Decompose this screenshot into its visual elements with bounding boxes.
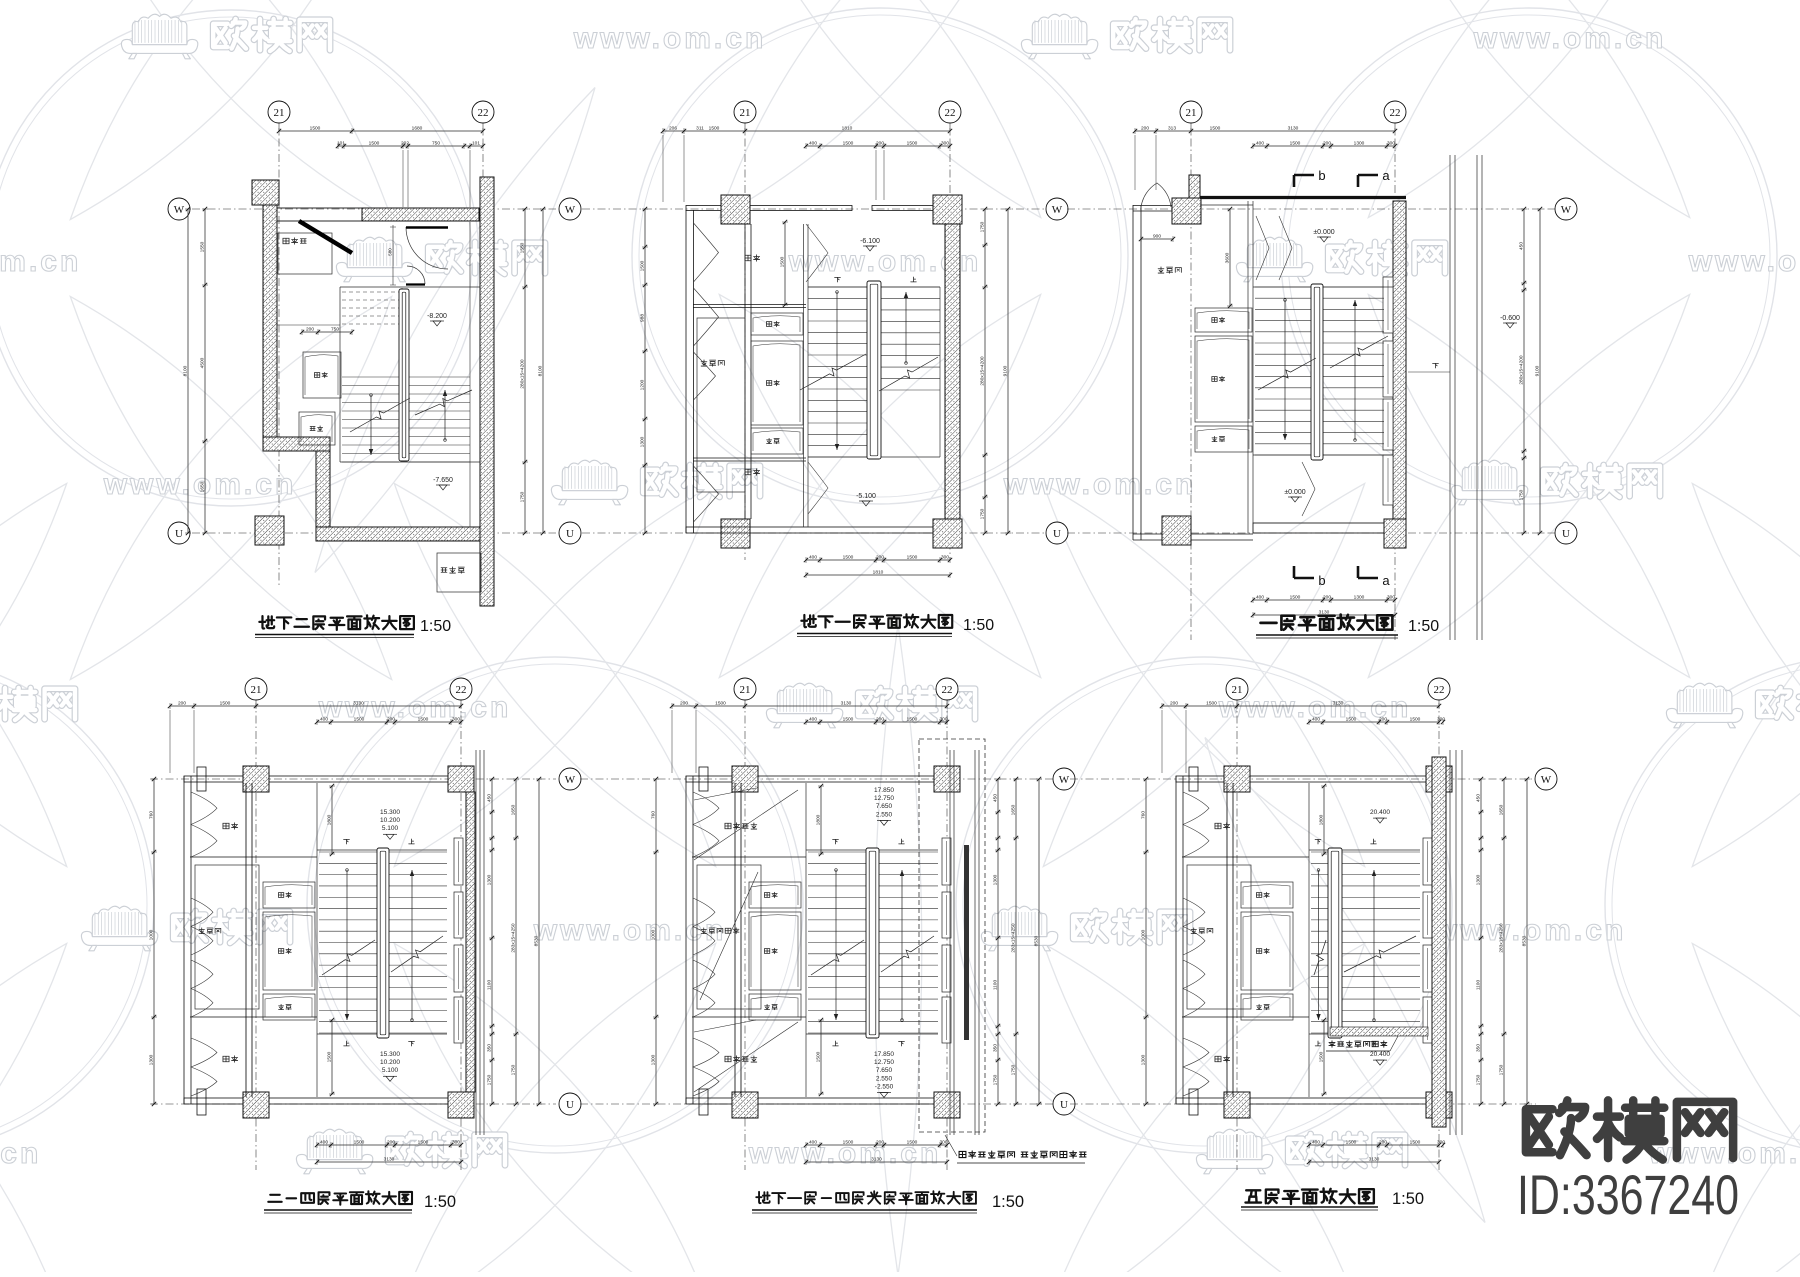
svg-text:760: 760 xyxy=(1141,811,1147,819)
svg-text:8100: 8100 xyxy=(183,365,189,376)
svg-text:1500: 1500 xyxy=(1410,1140,1421,1146)
svg-text:1300: 1300 xyxy=(1354,141,1365,147)
plan2 grid bubble 22 xyxy=(939,101,961,123)
plan1/plan2 shared W bubble xyxy=(559,198,581,220)
svg-text:3600: 3600 xyxy=(1225,252,1231,263)
svg-text:1200: 1200 xyxy=(640,379,646,390)
plan6 gridline U xyxy=(1070,1103,1536,1105)
plan3 right dimensions xyxy=(1519,207,1544,535)
svg-text:12.750: 12.750 xyxy=(874,1059,894,1066)
plan2 interior dim xyxy=(780,220,789,307)
plan5 up down labels xyxy=(833,839,905,1046)
svg-text:200: 200 xyxy=(387,1140,395,1146)
plan5 walls xyxy=(686,766,960,1118)
svg-text:300: 300 xyxy=(941,555,949,561)
plan5 bottom dims xyxy=(804,1140,949,1166)
svg-text:-5.100: -5.100 xyxy=(856,493,876,500)
svg-text:1500: 1500 xyxy=(354,717,365,723)
plan3 section marker b top xyxy=(1294,168,1326,187)
plan2 room vestibule label bottom xyxy=(745,469,760,475)
plan1 break lines xyxy=(350,390,472,432)
svg-text:400: 400 xyxy=(1256,141,1264,147)
plan3 bottom dims xyxy=(1251,595,1397,619)
svg-text:www.om.cn: www.om.cn xyxy=(1473,22,1667,55)
plan4 W bubble right xyxy=(559,768,581,790)
plan6 power room xyxy=(1187,865,1251,1009)
svg-text:17.850: 17.850 xyxy=(874,1051,894,1058)
plan3 grid bubble 22 xyxy=(1384,101,1406,123)
plan3 section marker b bottom xyxy=(1294,566,1326,588)
plan2 door zigzags xyxy=(694,223,829,522)
plan1 interior small dims xyxy=(277,325,354,335)
svg-text:5.100: 5.100 xyxy=(382,825,399,832)
svg-text:1500: 1500 xyxy=(418,717,429,723)
svg-text:1680: 1680 xyxy=(412,126,423,132)
plan5 air shafts xyxy=(749,882,801,1020)
svg-text:a: a xyxy=(1382,573,1390,588)
plan5 stair arrows xyxy=(834,869,904,1022)
plan1 stair arrows xyxy=(369,390,447,455)
plan1 right dimensions xyxy=(520,207,547,535)
plan6 stair rail xyxy=(1328,848,1342,1038)
svg-text:760: 760 xyxy=(651,811,657,819)
plan1 gridline U xyxy=(192,532,556,534)
svg-text:1300: 1300 xyxy=(993,874,999,885)
plan6 gridline W xyxy=(1070,778,1536,780)
plan6 aerated concrete label xyxy=(1326,1036,1398,1051)
svg-text:W: W xyxy=(1059,774,1070,786)
svg-text:200: 200 xyxy=(876,717,884,723)
svg-text:10.200: 10.200 xyxy=(380,1059,400,1066)
plan1/plan2 shared U bubble xyxy=(559,522,581,544)
svg-text:1650: 1650 xyxy=(511,804,517,815)
svg-text:283x15=4250: 283x15=4250 xyxy=(1011,923,1017,953)
plan4 stair arrows xyxy=(345,869,414,1022)
plan4 right wall slots xyxy=(454,838,463,1043)
plan6 grid bubble 22 xyxy=(1428,678,1450,700)
svg-text:2.550: 2.550 xyxy=(876,811,893,818)
svg-text:300: 300 xyxy=(1387,595,1395,601)
svg-text:1500: 1500 xyxy=(843,555,854,561)
plan1 small door arc xyxy=(406,266,425,285)
plan5 stair shaft xyxy=(806,783,938,1097)
svg-text:3130: 3130 xyxy=(384,1157,395,1163)
svg-text:400: 400 xyxy=(320,717,328,723)
svg-text:7.650: 7.650 xyxy=(876,803,893,810)
svg-text:15.300: 15.300 xyxy=(380,809,400,816)
plan4 vestibule labels xyxy=(223,823,238,1062)
svg-text:1650: 1650 xyxy=(200,481,206,492)
plan4 grid lines xyxy=(256,700,461,1170)
svg-text:350: 350 xyxy=(1476,1044,1482,1052)
plan1 door arc xyxy=(406,227,448,269)
plan4 air shafts xyxy=(263,882,315,1020)
svg-text:1500: 1500 xyxy=(354,1140,365,1146)
plan3 down label right xyxy=(1408,363,1450,372)
plan1 wall face line xyxy=(469,222,471,527)
svg-text:1500: 1500 xyxy=(1290,595,1301,601)
svg-text:900: 900 xyxy=(1153,234,1161,240)
svg-text:1810: 1810 xyxy=(873,570,884,576)
svg-text:400: 400 xyxy=(809,555,817,561)
plan2 top dim row1 xyxy=(661,126,952,203)
svg-text:U: U xyxy=(1060,1099,1068,1111)
svg-text:1650: 1650 xyxy=(1011,804,1017,815)
svg-text:1750: 1750 xyxy=(1011,1064,1017,1075)
svg-text:1100: 1100 xyxy=(1476,980,1482,991)
plan4 grid bubble 21 xyxy=(245,678,267,700)
svg-text:1300: 1300 xyxy=(651,1054,657,1065)
svg-text:b: b xyxy=(1318,168,1325,183)
plan6 wall end flanges xyxy=(1189,767,1198,1115)
svg-text:1500: 1500 xyxy=(907,141,918,147)
svg-text:21: 21 xyxy=(1186,107,1197,119)
svg-text:400: 400 xyxy=(809,1140,817,1146)
svg-text:21: 21 xyxy=(740,684,751,696)
plan3 U bubble right xyxy=(1555,522,1577,544)
svg-text:200: 200 xyxy=(1170,701,1178,707)
svg-text:1:50: 1:50 xyxy=(1392,1190,1424,1208)
plan4 top dim row2 xyxy=(315,717,463,726)
svg-text:3130: 3130 xyxy=(1333,701,1344,707)
svg-text:1300: 1300 xyxy=(1354,595,1365,601)
plan4 walls xyxy=(184,766,474,1118)
plan1 level -8.200 xyxy=(427,313,447,326)
svg-text:1750: 1750 xyxy=(993,1074,999,1085)
plan2 stair arrows xyxy=(835,291,908,450)
plan3 break lines xyxy=(1258,336,1388,390)
svg-text:1500: 1500 xyxy=(843,717,854,723)
plan3 top dim row1 xyxy=(1133,126,1397,191)
plan2 up/down labels xyxy=(835,277,917,282)
svg-text:10.200: 10.200 xyxy=(380,817,400,824)
svg-text:1500: 1500 xyxy=(1346,717,1357,723)
svg-text:2.550: 2.550 xyxy=(876,1075,893,1082)
svg-text:1:50: 1:50 xyxy=(424,1193,456,1211)
plan1 air shaft boxes xyxy=(299,352,341,445)
plan3 section marker a top xyxy=(1358,168,1390,187)
svg-text:400: 400 xyxy=(320,1140,328,1146)
svg-text:5.100: 5.100 xyxy=(382,1067,399,1074)
plan6 grid lines xyxy=(1237,700,1439,1170)
svg-text:www.om.cn: www.om.cn xyxy=(573,22,767,55)
plan6 treads left flight xyxy=(1311,852,1330,1033)
svg-text:300: 300 xyxy=(1437,1140,1445,1146)
plan6 bottom dims xyxy=(1307,1140,1446,1166)
svg-text:1:50: 1:50 xyxy=(963,617,994,634)
svg-text:3130: 3130 xyxy=(841,701,852,707)
plan6 left dims xyxy=(1141,777,1150,1106)
svg-text:450: 450 xyxy=(1519,242,1525,250)
svg-text:-2.550: -2.550 xyxy=(875,1083,894,1090)
svg-text:206: 206 xyxy=(669,126,677,132)
plan4 partition wall xyxy=(190,783,317,1097)
svg-text:1500: 1500 xyxy=(907,555,918,561)
plan4 left dims xyxy=(149,777,158,1106)
svg-text:21: 21 xyxy=(251,684,262,696)
plan4 interior room dims xyxy=(327,784,336,1096)
plan5 top dim row1 xyxy=(670,701,949,774)
plan5 vestibule labels xyxy=(725,823,757,1062)
plan2 U bubble right xyxy=(1046,522,1068,544)
plan4 top dim row1 xyxy=(168,701,463,774)
svg-text:1500: 1500 xyxy=(1346,1140,1357,1146)
svg-text:www.om.cn: www.om.cn xyxy=(0,245,81,278)
plan6 top dim row2 xyxy=(1307,717,1446,726)
plan2 grid bubble 21 xyxy=(734,101,756,123)
plan6 treads right flight xyxy=(1340,852,1420,1033)
plan2 treads left flight xyxy=(808,287,867,457)
plan5 grid lines xyxy=(745,700,947,1170)
svg-text:1500: 1500 xyxy=(418,1140,429,1146)
plan3 right corridor lines xyxy=(1450,155,1482,640)
plan5 right wall xyxy=(964,845,969,1040)
svg-text:3130: 3130 xyxy=(871,1157,882,1163)
svg-text:22: 22 xyxy=(478,107,489,119)
plan3 power room label xyxy=(1158,267,1181,273)
svg-text:3130: 3130 xyxy=(1369,1157,1380,1163)
plan4 gridline W xyxy=(150,778,556,780)
plan6 right dims xyxy=(1476,777,1531,1106)
plan1 upper dashed treads xyxy=(342,288,402,330)
plan1 U bubble left xyxy=(168,522,190,544)
svg-text:W: W xyxy=(1052,204,1063,216)
svg-text:1750: 1750 xyxy=(511,1064,517,1075)
plan4 door zigzags xyxy=(191,792,217,1096)
svg-text:www.om.cn: www.om.cn xyxy=(1003,468,1197,501)
svg-text:988: 988 xyxy=(640,314,646,322)
svg-text:1500: 1500 xyxy=(1319,1051,1325,1062)
plan5 level stack bottom xyxy=(874,1051,894,1098)
plan5 stair rail xyxy=(866,848,879,1038)
plan2 treads right flight xyxy=(881,287,940,390)
plan3 level -0.600 xyxy=(1500,315,1520,328)
plan5 right vertical lines xyxy=(950,750,979,1135)
svg-text:7.650: 7.650 xyxy=(876,1067,893,1074)
plan5 treads left flight xyxy=(808,852,868,1033)
plan1 W bubble left xyxy=(168,198,190,220)
svg-text:1500: 1500 xyxy=(220,701,231,707)
plan6 right wall xyxy=(1432,757,1446,1127)
plan5 title xyxy=(752,1191,1024,1213)
plan4 right wall xyxy=(466,792,475,1092)
plan4 break lines xyxy=(322,936,443,975)
svg-text:20.400: 20.400 xyxy=(1370,809,1390,816)
svg-text:1:50: 1:50 xyxy=(992,1193,1024,1211)
plan6 stair shaft xyxy=(1309,783,1420,1097)
svg-text:1500: 1500 xyxy=(843,1140,854,1146)
plan3 W bubble right xyxy=(1555,198,1577,220)
svg-text:U: U xyxy=(1562,528,1570,540)
svg-text:1500: 1500 xyxy=(640,260,646,271)
plan4 level stack top xyxy=(380,809,400,839)
svg-text:1750: 1750 xyxy=(1519,489,1525,500)
plan6 grid bubble 21 xyxy=(1226,678,1248,700)
svg-text:313: 313 xyxy=(1168,126,1176,132)
svg-text:www.om.cn: www.om.cn xyxy=(318,691,512,724)
plan3 top dim row2 xyxy=(1251,141,1397,150)
svg-text:U: U xyxy=(566,1099,574,1111)
svg-text:9100: 9100 xyxy=(1003,365,1009,376)
svg-text:280x15=4200: 280x15=4200 xyxy=(520,359,526,389)
plan1 stair shaft xyxy=(340,287,480,462)
svg-text:400: 400 xyxy=(1256,595,1264,601)
plan1 top dimension row2 xyxy=(336,141,485,208)
svg-text:U: U xyxy=(175,528,183,540)
svg-text:1750: 1750 xyxy=(487,1074,493,1085)
svg-text:3130: 3130 xyxy=(1288,126,1299,132)
svg-text:300: 300 xyxy=(1387,141,1395,147)
svg-text:1500: 1500 xyxy=(715,701,726,707)
svg-text:22: 22 xyxy=(945,107,956,119)
plan1 stair rail xyxy=(399,289,409,461)
svg-text:750: 750 xyxy=(432,141,440,147)
plan4 right vertical lines xyxy=(476,750,484,1135)
plan6 W bubble right xyxy=(1535,768,1557,790)
plan1 left dimensions xyxy=(183,207,209,535)
svg-text:1800: 1800 xyxy=(1319,814,1325,825)
svg-text:450: 450 xyxy=(1476,794,1482,802)
plan1 ramp thick line xyxy=(299,221,352,253)
svg-text:580: 580 xyxy=(388,248,393,256)
plan3 wall window slots xyxy=(1383,277,1393,505)
plan3 interior dim xyxy=(1139,201,1248,533)
svg-text:W: W xyxy=(1561,204,1572,216)
plan6 walls xyxy=(1176,766,1452,1118)
svg-text:300: 300 xyxy=(452,1140,460,1146)
site id text xyxy=(1517,1163,1739,1226)
plan3 treads right flight xyxy=(1323,287,1384,455)
plan4 bottom dims xyxy=(315,1140,463,1166)
plan6 right vertical lines xyxy=(1450,750,1462,1135)
svg-text:283x15=4250: 283x15=4250 xyxy=(1499,923,1505,953)
plan2 right dimensions xyxy=(980,207,1012,535)
plan4 power room xyxy=(195,865,259,1009)
svg-text:280x15=4200: 280x15=4200 xyxy=(1519,355,1525,385)
plan2 W bubble right xyxy=(1046,198,1068,220)
svg-text:1100: 1100 xyxy=(487,980,493,991)
plan5 wall end flanges xyxy=(699,767,708,1115)
plan5 gridline U xyxy=(580,1103,1054,1105)
svg-text:300: 300 xyxy=(1437,717,1445,723)
plan3 gridline W xyxy=(1067,208,1556,210)
plan4 right dims xyxy=(487,777,543,1106)
svg-text:300: 300 xyxy=(939,717,947,723)
svg-text:1750: 1750 xyxy=(980,508,986,519)
svg-text:1100: 1100 xyxy=(993,980,999,991)
svg-text:22: 22 xyxy=(1390,107,1401,119)
svg-text:1800: 1800 xyxy=(327,814,333,825)
svg-text:1500: 1500 xyxy=(1206,701,1217,707)
plan3 stair shaft edge xyxy=(1253,201,1393,523)
svg-text:21: 21 xyxy=(1232,684,1243,696)
plan3 treads left flight xyxy=(1255,287,1311,455)
svg-text:8100: 8100 xyxy=(538,365,544,376)
svg-text:8530: 8530 xyxy=(1034,935,1040,946)
svg-text:1300: 1300 xyxy=(1476,874,1482,885)
plan3 title xyxy=(1256,615,1439,638)
plan6 vestibule labels xyxy=(1215,823,1230,1062)
svg-text:283x15=4250: 283x15=4250 xyxy=(511,923,517,953)
svg-text:1500: 1500 xyxy=(907,1140,918,1146)
plan1 treads right flight xyxy=(409,377,470,462)
svg-text:1:50: 1:50 xyxy=(420,618,451,635)
svg-text:200: 200 xyxy=(1379,717,1387,723)
plan5 void diagonals xyxy=(694,788,798,1092)
svg-text:a: a xyxy=(1382,168,1390,183)
svg-text:1750: 1750 xyxy=(1476,1074,1482,1085)
svg-text:280x15=4200: 280x15=4200 xyxy=(980,356,986,386)
plan5 door zigzags xyxy=(693,792,719,1096)
plan6 interior room dims xyxy=(1319,784,1328,1096)
svg-text:1500: 1500 xyxy=(327,1051,333,1062)
plan6 door zigzags xyxy=(1183,792,1209,1096)
svg-text:1:50: 1:50 xyxy=(1408,618,1439,635)
svg-text:760: 760 xyxy=(149,811,155,819)
plan3 section marker a bottom xyxy=(1358,566,1390,588)
plan1 grid line 21 xyxy=(279,123,483,585)
svg-text:-8.200: -8.200 xyxy=(427,313,447,320)
plan5 right dims xyxy=(993,777,1043,1106)
plan5 power room xyxy=(697,865,761,1009)
plan4 title xyxy=(264,1191,456,1213)
svg-text:200: 200 xyxy=(306,327,314,333)
plan4 treads left flight xyxy=(319,852,379,1033)
plan6 air shafts xyxy=(1241,882,1293,1020)
plan4 U bubble right xyxy=(559,1093,581,1115)
plan4 level stack bottom xyxy=(380,1051,400,1081)
plan2 room vestibule label xyxy=(745,255,760,261)
plan2 left dimensions xyxy=(640,207,649,535)
svg-text:400: 400 xyxy=(1312,1140,1320,1146)
svg-text:1750: 1750 xyxy=(1499,1064,1505,1075)
plan1 grid bubble 21 xyxy=(268,101,290,123)
plan3 top door zigzags xyxy=(1256,216,1315,516)
svg-text:15.300: 15.300 xyxy=(380,1051,400,1058)
plan6 aerated concrete hatch strip xyxy=(1330,1027,1428,1036)
svg-text:www.om.cn: www.om.cn xyxy=(0,1137,41,1170)
plan6 up down labels xyxy=(1315,839,1376,1046)
svg-text:±0.000: ±0.000 xyxy=(1313,229,1334,236)
plan2 power room xyxy=(697,318,745,492)
plan5 grid bubble 21 xyxy=(734,678,756,700)
svg-text:www.om.cn: www.om.cn xyxy=(103,468,297,501)
svg-text:1750: 1750 xyxy=(980,221,986,232)
plan5 partition wall xyxy=(692,783,806,1097)
svg-text:200: 200 xyxy=(876,141,884,147)
svg-text:400: 400 xyxy=(809,141,817,147)
svg-text:±0.000: ±0.000 xyxy=(1284,489,1305,496)
svg-text:1810: 1810 xyxy=(842,126,853,132)
plan6 level stack bottom xyxy=(1370,1051,1390,1065)
plan2 gridline U xyxy=(582,532,1046,534)
plan2 top dim row2 xyxy=(804,141,952,201)
plan6 title xyxy=(1241,1188,1424,1210)
plan6 partition wall xyxy=(1182,783,1309,1097)
svg-text:1650: 1650 xyxy=(1499,804,1505,815)
svg-text:200: 200 xyxy=(876,555,884,561)
plan2 stair shaft xyxy=(804,224,941,527)
plan4 grid bubble 22 xyxy=(450,678,472,700)
plan3 air shafts xyxy=(1195,308,1252,452)
svg-text:1000: 1000 xyxy=(149,929,155,940)
svg-text:200: 200 xyxy=(1323,141,1331,147)
svg-text:12.750: 12.750 xyxy=(874,795,894,802)
svg-text:22: 22 xyxy=(942,684,953,696)
plan2 break lines xyxy=(800,354,938,391)
svg-text:1300: 1300 xyxy=(1141,1054,1147,1065)
svg-text:1500: 1500 xyxy=(780,256,786,267)
